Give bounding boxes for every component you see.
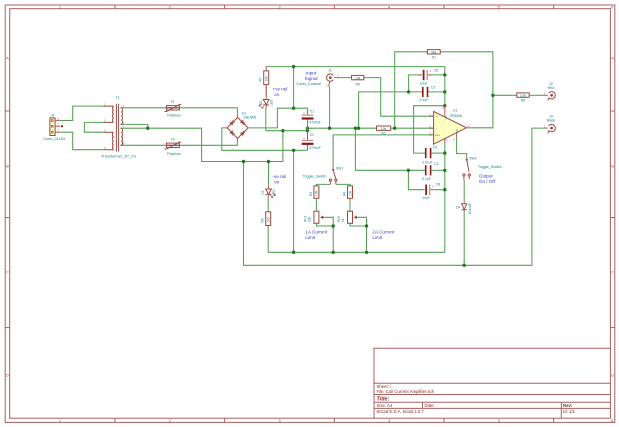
- svg-text:1N4148: 1N4148: [468, 203, 472, 214]
- wire feedback R1 left: [395, 52, 428, 128]
- svg-text:Toggle_Switch: Toggle_Switch: [303, 174, 327, 178]
- LED D3: [261, 185, 276, 198]
- junction 0V C4 branch: [354, 127, 357, 130]
- wire C5 right: [432, 152, 445, 154]
- svg-text:SW1: SW1: [336, 166, 343, 170]
- svg-text:Red: Red: [548, 86, 554, 90]
- capacitor C1: [302, 108, 321, 124]
- wire V+ column: [444, 75, 446, 106]
- svg-text:Id: 1/1: Id: 1/1: [563, 409, 576, 414]
- junction -rail at riser: [292, 149, 295, 152]
- svg-text:D2: D2: [259, 101, 263, 105]
- wire 0V bus bottom: [244, 128, 545, 265]
- coax connector J1: [326, 69, 339, 88]
- capacitor C4: [422, 162, 438, 181]
- resistor R9: [261, 212, 271, 227]
- coax connector J2: [544, 82, 556, 100]
- wire J1 pin to R5: [337, 77, 352, 79]
- svg-text:Output: Output: [479, 173, 494, 178]
- wire D2 bottom down: [265, 109, 267, 131]
- wire 0V to C3 left: [359, 92, 421, 128]
- svg-text:Limit: Limit: [305, 235, 315, 240]
- junction RV1 bottom: [332, 224, 335, 227]
- capacitor C3: [420, 85, 436, 102]
- junction J1 shield 0V: [328, 127, 331, 130]
- junction output node: [491, 94, 494, 97]
- junction V+ pin: [443, 104, 446, 107]
- NOTES TEXT: [272, 71, 495, 240]
- svg-text:1A Current: 1A Current: [305, 230, 328, 235]
- junction inverting input: [393, 127, 396, 130]
- wire SW1 right throw to R4: [336, 184, 350, 186]
- junction C6 right V+: [443, 73, 446, 76]
- svg-text:+: +: [242, 127, 244, 131]
- svg-text:R3: R3: [309, 192, 313, 196]
- wire RV2 wiper down: [358, 217, 367, 252]
- svg-text:J4: J4: [51, 114, 55, 118]
- wire F1 to bridge AC top: [180, 108, 238, 114]
- svg-text:56k: 56k: [431, 51, 437, 55]
- svg-text:R1: R1: [432, 56, 436, 60]
- svg-text:+: +: [303, 111, 305, 115]
- wire R6 to J2: [529, 94, 545, 96]
- junction C4 left: [407, 169, 410, 172]
- wire R5 to U1 pin1: [364, 78, 434, 117]
- potentiometer RV2: [337, 211, 358, 223]
- svg-text:Title:: Title:: [377, 396, 390, 402]
- wire C8 right: [432, 189, 444, 191]
- wire F3 to bridge AC bottom: [180, 142, 238, 145]
- resistor R7: [259, 67, 269, 88]
- svg-text:on: on: [274, 179, 280, 184]
- wire D2 top from R7: [265, 86, 267, 95]
- wire R2 right to U1 pin2: [391, 127, 434, 129]
- wire -V bus: [268, 251, 445, 253]
- svg-text:V+: V+: [444, 115, 448, 119]
- wire T1 pin6 to center tap junction: [121, 124, 148, 128]
- svg-text:10k: 10k: [381, 127, 387, 131]
- wire SW2 throw to D4: [463, 181, 465, 201]
- wire R9 bottom to -V bus: [267, 227, 269, 252]
- svg-text:U1: U1: [453, 109, 457, 113]
- svg-text:+: +: [303, 137, 305, 141]
- wire C6 right: [428, 74, 445, 76]
- wire J4 pin3 to T1 pin4: [60, 132, 103, 150]
- svg-text:Black: Black: [547, 118, 556, 122]
- wire C1 bottom segment: [307, 124, 309, 131]
- capacitor C6: [419, 68, 439, 85]
- capacitor C2: [302, 131, 321, 151]
- svg-text:R6: R6: [521, 99, 525, 103]
- svg-text:A: A: [611, 56, 614, 61]
- wire -rail riser down: [293, 150, 295, 252]
- svg-text:C5: C5: [433, 145, 437, 149]
- wire J4 pin1 to T1 pin1: [60, 106, 103, 120]
- svg-text:D3: D3: [261, 190, 265, 194]
- bridge rectifier D1: [227, 112, 256, 142]
- svg-text:10R: 10R: [520, 94, 527, 98]
- wire 0V to C4 left: [355, 128, 425, 170]
- svg-text:C3: C3: [431, 85, 435, 89]
- fuse F3: [165, 138, 182, 156]
- svg-text:R5: R5: [356, 83, 360, 87]
- junction 0V at C1C2 mid: [306, 129, 309, 132]
- wire D4 to 0V bus: [463, 212, 465, 265]
- wire R1 right to output: [440, 52, 493, 96]
- svg-text:C8: C8: [436, 183, 440, 187]
- svg-text:C2: C2: [310, 133, 314, 137]
- resistor R2: [377, 126, 391, 135]
- svg-text:+: +: [432, 184, 434, 188]
- resistor R3: [309, 186, 319, 198]
- wire D2 cathode to 0V: [266, 130, 308, 132]
- svg-text:Size: A4: Size: A4: [377, 403, 393, 408]
- svg-text:0.1uF: 0.1uF: [422, 177, 431, 181]
- svg-text:~: ~: [236, 117, 238, 121]
- svg-text:10uF: 10uF: [420, 82, 428, 86]
- wire C6 left to C3 row: [409, 75, 422, 92]
- resistor R5: [352, 75, 364, 86]
- svg-text:10k: 10k: [265, 76, 269, 82]
- wire U1 pin3 ILim to SW1: [333, 135, 434, 168]
- wire V+ to C5 left: [414, 106, 445, 153]
- svg-text:Toggle_Switch: Toggle_Switch: [478, 165, 502, 169]
- junction C8 right: [443, 188, 446, 191]
- svg-text:C6: C6: [434, 68, 438, 72]
- svg-text:GBU806: GBU806: [243, 116, 256, 120]
- svg-text:-ve rail: -ve rail: [272, 174, 286, 179]
- svg-text:Polyfuse: Polyfuse: [167, 113, 181, 117]
- svg-text:B: B: [6, 163, 9, 168]
- capacitor C8: [422, 183, 440, 201]
- svg-text:D4: D4: [456, 205, 460, 209]
- wire 0V line right: [308, 127, 377, 129]
- resistor R4: [342, 186, 352, 198]
- toggle switch SW2: [463, 157, 502, 182]
- svg-text:10k: 10k: [315, 190, 319, 196]
- junction C3 left: [407, 90, 410, 93]
- svg-text:+ve rail: +ve rail: [273, 87, 288, 92]
- svg-text:D: D: [6, 373, 9, 378]
- svg-text:Transformer_2P_2S: Transformer_2P_2S: [101, 154, 136, 159]
- wire RV1 bottom to wiper: [316, 223, 333, 226]
- junction +raw at C1: [292, 107, 295, 110]
- wire U1 E/S to SW2: [457, 138, 467, 158]
- svg-text:F3: F3: [171, 138, 175, 142]
- toggle switch SW1: [303, 166, 344, 184]
- diode D4: [456, 202, 472, 215]
- wire bridge minus to -rail: [222, 128, 308, 150]
- svg-text:Limit: Limit: [372, 235, 382, 240]
- resistor R6: [517, 93, 529, 103]
- capacitor C5: [422, 145, 437, 164]
- junction +rail at riser: [292, 65, 295, 68]
- LED D2: [259, 88, 274, 109]
- svg-text:J1: J1: [328, 69, 332, 73]
- svg-text:R4: R4: [342, 192, 346, 196]
- svg-text:2A Current: 2A Current: [372, 230, 395, 235]
- svg-text:ILim: ILim: [435, 133, 441, 137]
- wire R4 to RV2: [349, 198, 351, 211]
- svg-text:10k: 10k: [348, 190, 352, 196]
- svg-text:on: on: [274, 92, 280, 97]
- junction C3 right V+: [443, 90, 446, 93]
- svg-text:D: D: [611, 373, 614, 378]
- junction RV2 bottom: [365, 224, 368, 227]
- svg-text:Polyfuse: Polyfuse: [167, 152, 181, 156]
- wire C3 right: [428, 91, 445, 93]
- wire T1 pin8 to F3: [121, 144, 167, 146]
- svg-text:Rev:: Rev:: [563, 403, 573, 408]
- svg-text:10k: 10k: [307, 216, 311, 222]
- svg-text:Input: Input: [306, 71, 317, 76]
- junction 0V bus D4: [463, 264, 466, 267]
- wire SW1 left throw to R3: [316, 184, 330, 186]
- svg-text:+: +: [436, 115, 438, 119]
- svg-text:0.1uF: 0.1uF: [420, 98, 429, 102]
- transformer T1: [101, 96, 136, 159]
- svg-text:File: Coil Current Amplifier.s: File: Coil Current Amplifier.sch: [377, 389, 435, 394]
- wire J1 shield down: [329, 87, 331, 128]
- wire D3 to R9: [267, 197, 269, 212]
- svg-text:KiCad E.D.A. kicad 4.0.7: KiCad E.D.A. kicad 4.0.7: [377, 409, 425, 414]
- wire bridge plus to C1 top: [248, 108, 308, 128]
- wire D3 top to 0V: [268, 162, 270, 185]
- junction C4 right: [443, 169, 446, 172]
- wire R3 to RV1: [315, 198, 317, 211]
- svg-text:C: C: [611, 270, 614, 275]
- svg-text:T1: T1: [115, 96, 119, 100]
- wire U1 output up: [470, 95, 493, 128]
- wire RV1 wiper down: [324, 217, 333, 252]
- svg-text:Conn_01x03: Conn_01x03: [43, 136, 65, 141]
- svg-text:10uF: 10uF: [422, 196, 430, 200]
- junction 0V at 243.5: [242, 160, 245, 163]
- svg-text:E/S: E/S: [455, 129, 459, 134]
- svg-text:~: ~: [236, 135, 238, 139]
- junction -bus at riser: [292, 251, 295, 254]
- svg-text:R9: R9: [261, 218, 265, 222]
- wire +rail riser: [293, 67, 295, 109]
- wire +rail top: [266, 67, 445, 75]
- wire C4 right: [432, 169, 445, 171]
- wire V- column down to -V bus: [444, 144, 446, 253]
- junction center tap: [146, 127, 149, 130]
- svg-text:4700uF: 4700uF: [309, 146, 321, 150]
- svg-text:C4: C4: [434, 162, 438, 166]
- svg-text:-: -: [436, 127, 437, 131]
- TITLE BLOCK: [374, 348, 610, 418]
- opamp U1: [429, 106, 470, 145]
- wire RV2 bottom to wiper: [350, 223, 367, 226]
- svg-text:LED: LED: [270, 99, 274, 106]
- svg-text:On / Off: On / Off: [479, 179, 496, 184]
- coax connector J3: [544, 115, 556, 134]
- svg-text:C1: C1: [310, 110, 314, 114]
- junction 0V at 282.9: [281, 129, 284, 132]
- wire T1 pin7 center tap 0V run: [121, 128, 283, 161]
- svg-text:C: C: [6, 270, 9, 275]
- connector J4: [43, 114, 65, 142]
- svg-text:OPA548: OPA548: [450, 114, 463, 118]
- junction C5 right: [443, 151, 446, 154]
- wire output to R6: [493, 94, 517, 96]
- svg-text:A: A: [6, 56, 9, 61]
- svg-text:4700uF: 4700uF: [309, 121, 321, 125]
- wire T1 pin2 to pin3 series link: [84, 122, 103, 132]
- junction 0V C1C2 line: [306, 127, 309, 130]
- svg-text:10k: 10k: [355, 76, 361, 80]
- svg-text:B: B: [611, 163, 614, 168]
- svg-text:R2: R2: [381, 131, 385, 135]
- svg-text:0.01uF: 0.01uF: [422, 161, 433, 165]
- fuse F1: [165, 100, 182, 117]
- junction 0V at D3: [267, 160, 270, 163]
- wire T1 pin5 to F1: [121, 107, 167, 109]
- svg-text:F1: F1: [171, 100, 175, 104]
- resistor R1: [427, 50, 440, 60]
- junction -bus RV2: [365, 251, 368, 254]
- svg-text:LED: LED: [272, 189, 276, 196]
- svg-text:Conn_Coaxial: Conn_Coaxial: [296, 81, 321, 86]
- svg-text:SW2: SW2: [469, 157, 476, 161]
- wire C8 left: [408, 170, 424, 189]
- junction -bus RV1: [332, 251, 335, 254]
- svg-text:R7: R7: [259, 77, 263, 81]
- svg-text:Date:: Date:: [425, 403, 435, 408]
- potentiometer RV1: [303, 211, 324, 223]
- svg-text:+: +: [429, 69, 431, 73]
- svg-text:5k: 5k: [341, 218, 345, 222]
- junction 0V C3 branch: [357, 127, 360, 130]
- svg-text:1k5: 1k5: [267, 217, 271, 222]
